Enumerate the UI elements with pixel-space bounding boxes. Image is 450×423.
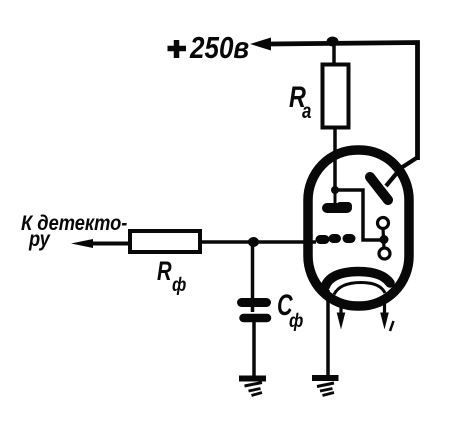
diode anode plate (diagonal) [370,177,388,200]
grid (dashed) [320,235,325,244]
wire Rф to grid [200,240,316,244]
stray tick [390,321,394,331]
node anode junction [331,186,339,194]
arrow to detector [71,239,93,248]
wire Ra bottom lead [333,127,337,190]
resistor Rф [130,231,200,252]
heater [334,283,385,295]
wire Ra top lead [332,43,336,64]
heater lead arrow left [339,303,342,314]
wire anode junction to screen circles [335,190,381,240]
capacitor Cф plate 2 [244,314,268,323]
capacitor Cф plate 1 [242,298,267,307]
node grid junction [248,237,259,247]
cathode [325,272,390,288]
label +250в plus sign [168,46,187,52]
svg-text:ру: ру [28,228,51,252]
wire drop into tube to diode anode [386,157,418,186]
heater lead arrow right [383,303,386,314]
tube V1 envelope [308,150,409,306]
svg-text:R: R [157,256,172,287]
resistor Ra [323,65,349,128]
wire capacitor to ground [252,322,256,377]
ground (filter) [239,376,266,382]
anode plate (triode section) [327,203,347,213]
screen terminal link wire [383,228,384,249]
svg-text:ф: ф [289,310,304,332]
svg-text:а: а [302,100,312,123]
screen terminal lower circle [379,248,390,259]
node junction on +250в rail [327,37,339,47]
svg-text:ф: ф [172,274,187,296]
arrow to +250V supply [250,38,271,51]
wire anode stem [334,190,337,203]
wire top rail and right drop [268,43,418,161]
wire cathode to ground [326,290,330,376]
ground (cathode) [312,375,339,381]
node screen junction [380,235,389,244]
screen terminal upper circle [378,218,389,229]
svg-text:250в: 250в [189,31,249,66]
wire junction to capacitor [251,241,255,312]
